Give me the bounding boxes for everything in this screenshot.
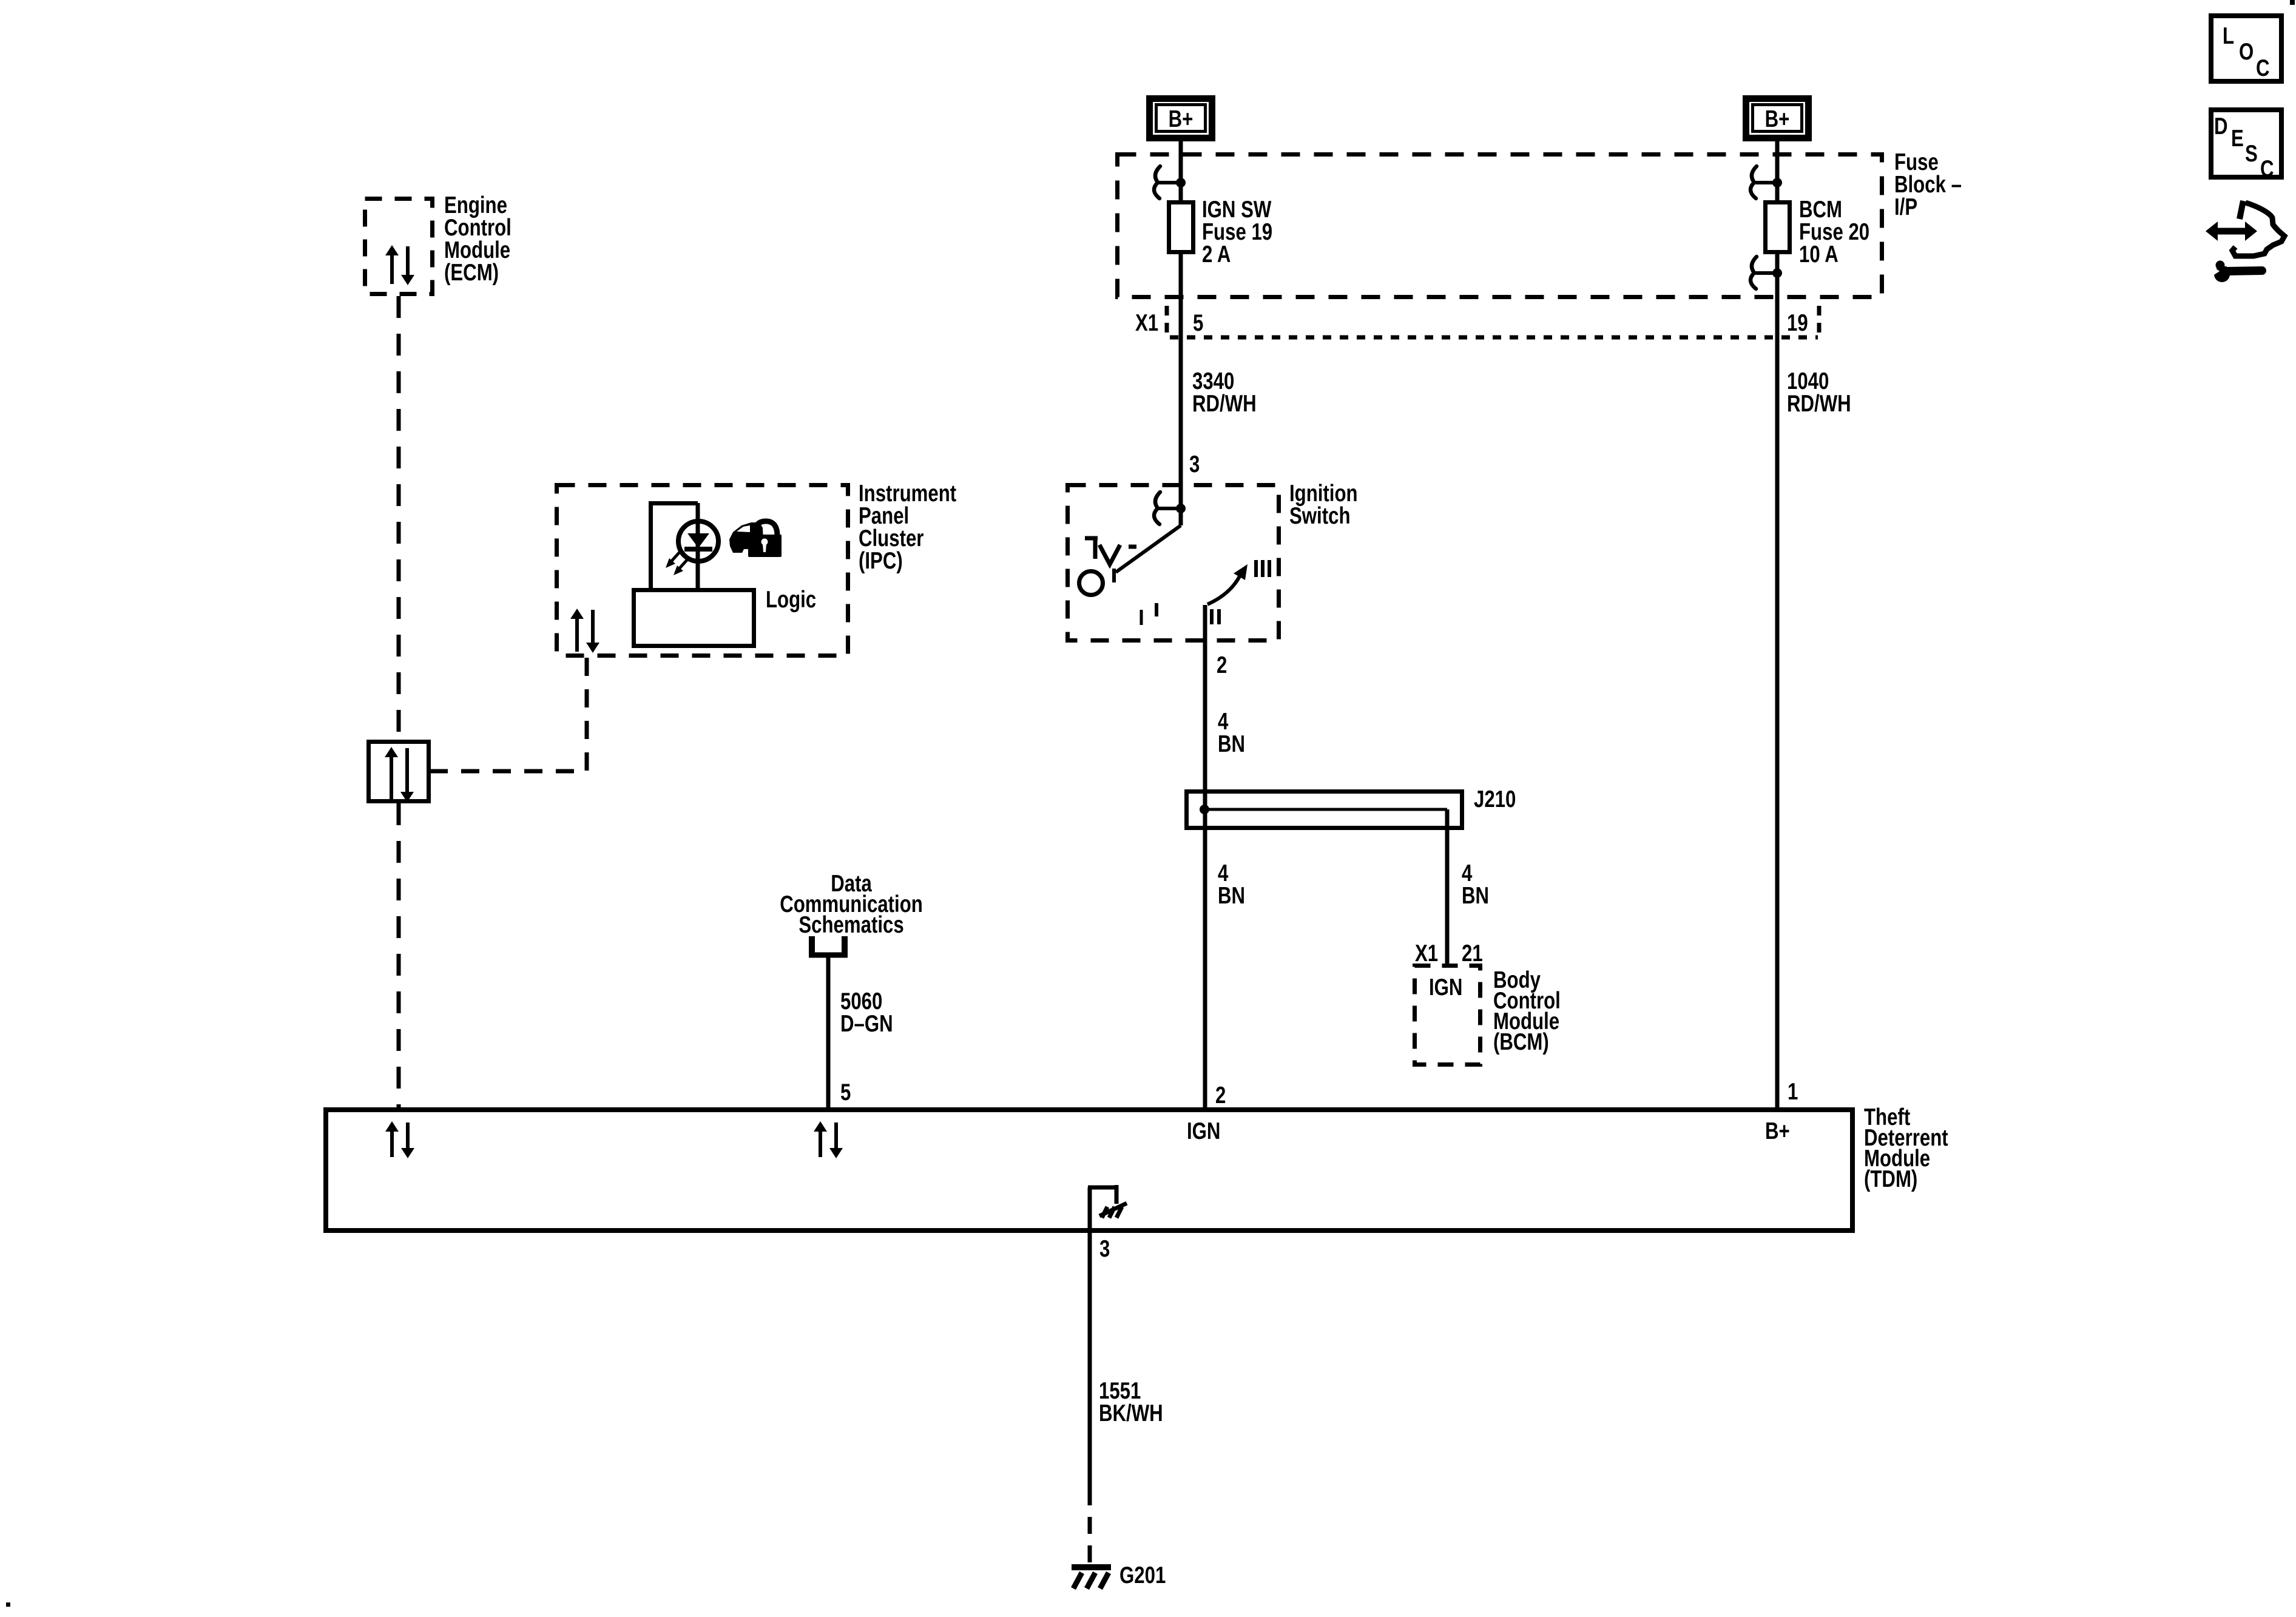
svg-text:E: E <box>2231 126 2244 152</box>
svg-text:5: 5 <box>840 1079 851 1106</box>
svg-text:IgnitionSwitch: IgnitionSwitch <box>1289 481 1358 529</box>
svg-text:3: 3 <box>1189 451 1200 478</box>
svg-text:2: 2 <box>1217 652 1227 678</box>
svg-text:Logic: Logic <box>766 587 816 613</box>
svg-text:5: 5 <box>1193 310 1203 336</box>
svg-text:21: 21 <box>1462 940 1483 967</box>
svg-text:IGN: IGN <box>1187 1118 1220 1144</box>
svg-text:X1: X1 <box>1415 940 1438 967</box>
svg-text:L: L <box>2223 23 2234 49</box>
svg-text:J210: J210 <box>1474 786 1516 812</box>
svg-text:B+: B+ <box>1765 1118 1790 1144</box>
svg-text:G201: G201 <box>1119 1562 1166 1588</box>
svg-text:B+: B+ <box>1765 106 1790 132</box>
svg-text:2: 2 <box>1215 1082 1226 1109</box>
svg-text:1: 1 <box>1788 1079 1798 1105</box>
svg-text:19: 19 <box>1787 310 1808 336</box>
svg-text:S: S <box>2245 141 2258 167</box>
svg-text:O: O <box>2239 39 2254 65</box>
svg-text:3: 3 <box>1099 1236 1110 1262</box>
svg-text:C: C <box>2256 55 2270 81</box>
svg-text:D: D <box>2214 113 2228 140</box>
svg-text:B+: B+ <box>1169 106 1194 132</box>
svg-text:C: C <box>2260 156 2274 182</box>
svg-text:X1: X1 <box>1135 310 1158 336</box>
svg-text:IGN: IGN <box>1429 974 1462 1001</box>
